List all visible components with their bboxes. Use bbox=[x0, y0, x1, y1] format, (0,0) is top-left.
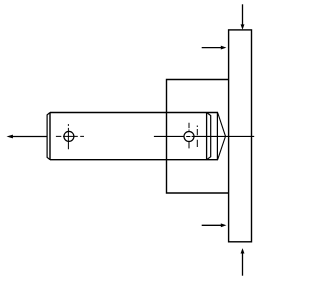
block centerline vertical dash-dot bbox=[196, 126, 198, 148]
centerline right hole horizontal dashes in circle bbox=[186, 136, 190, 138]
dimension arrow left (points left from pin end) bbox=[7, 135, 47, 139]
pin left end face bbox=[49, 113, 51, 160]
centerline pin axis left segment bbox=[154, 135, 184, 137]
pin body (top and bottom edges) bbox=[50, 113, 218, 160]
centerline right hole vertical bbox=[188, 123, 190, 149]
centerline left hole horizontal bbox=[56, 135, 84, 137]
pin right shoulder line bbox=[206, 113, 208, 160]
cone point bbox=[218, 113, 226, 160]
dimension arrow bottom (points up toward plate bottom) bbox=[241, 248, 245, 276]
plate (flange / washer, side view) bbox=[229, 30, 252, 242]
centerline pin axis right segment bbox=[192, 135, 255, 137]
hole circle left bbox=[64, 131, 74, 141]
dimension arrow top (points down at plate top) bbox=[241, 4, 245, 30]
cone base line bbox=[216, 113, 218, 160]
block (support body, section view) bbox=[167, 80, 229, 194]
hole circle right bbox=[184, 132, 194, 142]
pin right chamfer bbox=[207, 113, 211, 160]
centerline left hole vertical bbox=[67, 124, 69, 149]
pin left chamfer bbox=[47, 113, 50, 160]
dimension arrow upper right (points right at plate face) bbox=[202, 46, 227, 50]
dimension arrow lower right (points right at plate face) bbox=[202, 223, 227, 227]
